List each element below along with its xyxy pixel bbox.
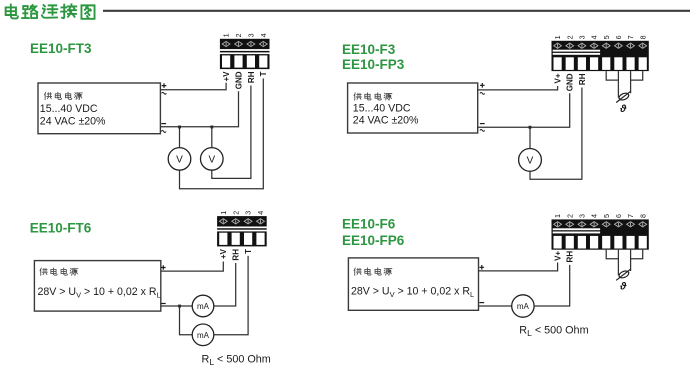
svg-text:V: V: [176, 155, 183, 166]
wire to mA meters: [161, 305, 192, 307]
svg-text:3: 3: [244, 211, 253, 215]
probe leads pins 5-8: [606, 71, 643, 80]
svg-text:GND: GND: [234, 71, 243, 89]
svg-text:28V > UV > 10 + 0,02 x RL: 28V > UV > 10 + 0,02 x RL: [38, 286, 161, 300]
svg-text:6: 6: [614, 35, 623, 39]
svg-text:T: T: [259, 71, 268, 76]
header rule: [103, 10, 690, 12]
svg-text:7: 7: [626, 214, 635, 218]
svg-text:+V: +V: [219, 248, 228, 259]
power supply box PS1: [38, 83, 160, 134]
wire V1 stem: [179, 127, 181, 148]
milliammeter mA2 (T loop): [192, 324, 214, 346]
polarity mark -: [161, 123, 166, 125]
power supply box PS3: [34, 261, 160, 312]
svg-text:3: 3: [246, 33, 255, 37]
svg-text:4: 4: [590, 214, 599, 218]
terminal block J2 (8-pole): [552, 41, 649, 71]
milliammeter mA1 (RH loop): [192, 295, 214, 317]
svg-text:RH: RH: [578, 73, 587, 85]
svg-text:EE10-FP3: EE10-FP3: [342, 57, 405, 72]
temperature sensor body: [616, 91, 630, 102]
svg-text:1: 1: [219, 211, 228, 215]
wire +V supply: [160, 83, 226, 90]
polarity mark +: [162, 83, 167, 88]
svg-text:RH: RH: [247, 71, 256, 83]
label 供电电源 (supply): [354, 268, 392, 275]
svg-text:EE10-F3: EE10-F3: [342, 42, 396, 57]
svg-text:1: 1: [553, 35, 562, 39]
power supply box PS2: [348, 83, 478, 133]
svg-text:1: 1: [553, 214, 562, 218]
wire +V supply: [161, 262, 224, 272]
junction dot C: [529, 126, 532, 129]
svg-text:mA: mA: [517, 302, 530, 311]
svg-text:24 VAC ±20%: 24 VAC ±20%: [353, 115, 419, 127]
svg-text:4: 4: [590, 35, 599, 39]
polarity mark ~: [161, 131, 166, 133]
svg-text:28V > UV > 10 + 0,02 x RL: 28V > UV > 10 + 0,02 x RL: [351, 286, 474, 300]
svg-text:EE10-F6: EE10-F6: [342, 217, 396, 232]
wire GND return: [160, 91, 238, 127]
voltmeter V2 (T output): [201, 148, 224, 171]
svg-text:2: 2: [231, 211, 240, 215]
junction dot A: [178, 126, 181, 129]
power supply box PS4: [348, 258, 478, 310]
svg-text:V+: V+: [553, 251, 562, 261]
svg-text:1: 1: [222, 33, 231, 37]
temperature sensor body: [616, 269, 630, 280]
wire branch to mA2: [180, 306, 193, 335]
wire V1 to T pin: [180, 79, 264, 189]
wire mA3 to RH pin: [534, 265, 570, 306]
polarity mark +: [480, 265, 485, 270]
junction dot D: [178, 305, 181, 308]
probe leads down: [618, 259, 630, 276]
polarity mark -: [480, 123, 485, 125]
probe leads pins 5-8: [606, 250, 643, 259]
svg-text:2: 2: [565, 214, 574, 218]
svg-text:EE10-FP6: EE10-FP6: [342, 233, 405, 248]
label 供电电源 (supply): [40, 268, 78, 275]
svg-text:V: V: [208, 155, 215, 166]
svg-text:2: 2: [565, 35, 574, 39]
polarity mark +: [161, 265, 166, 270]
svg-text:RL < 500 Ohm: RL < 500 Ohm: [519, 324, 588, 338]
svg-text:15...40 VDC: 15...40 VDC: [40, 103, 98, 115]
svg-text:8: 8: [638, 35, 647, 39]
terminal block J3 (4-pole): [217, 216, 267, 246]
svg-text:RH: RH: [566, 251, 575, 263]
svg-text:2: 2: [234, 33, 243, 37]
svg-text:24 VAC ±20%: 24 VAC ±20%: [40, 116, 106, 128]
svg-text:5: 5: [602, 35, 611, 39]
svg-text:ϑ: ϑ: [619, 281, 627, 293]
polarity mark ~: [480, 92, 485, 94]
terminal block J1 (4-pole): [220, 39, 270, 69]
header title 电路连接图 (circuit connection diagram): [6, 4, 95, 18]
label 供电电源 (supply): [354, 93, 392, 100]
wire V3 stem: [529, 127, 531, 148]
polarity mark -: [479, 302, 484, 304]
svg-text:RL < 500 Ohm: RL < 500 Ohm: [202, 353, 271, 367]
svg-text:mA: mA: [197, 302, 210, 311]
wire V+ supply: [479, 263, 558, 271]
svg-text:3: 3: [578, 214, 587, 218]
wire V3 to RH pin: [530, 88, 582, 180]
svg-text:T: T: [244, 249, 253, 254]
milliammeter mA3: [512, 295, 534, 317]
svg-text:GND: GND: [566, 73, 575, 91]
svg-text:4: 4: [256, 211, 265, 215]
wire to mA meter: [479, 305, 512, 307]
svg-text:EE10-FT6: EE10-FT6: [30, 220, 92, 235]
wire V2 to RH pin: [212, 86, 251, 179]
voltmeter V1 (RH output): [168, 148, 191, 171]
polarity mark -: [161, 303, 166, 305]
svg-text:4: 4: [259, 33, 268, 37]
svg-text:15...40 VDC: 15...40 VDC: [353, 102, 411, 114]
svg-text:5: 5: [602, 214, 611, 218]
polarity mark ~: [162, 92, 167, 94]
junction dot B: [210, 126, 213, 129]
wire mA1 to RH pin: [214, 263, 236, 306]
svg-text:ϑ: ϑ: [619, 103, 627, 115]
wire V2 stem: [211, 127, 213, 148]
svg-text:3: 3: [578, 35, 587, 39]
label 供电电源 (supply): [44, 92, 82, 99]
svg-text:RH: RH: [232, 249, 241, 261]
wire GND return: [478, 93, 570, 127]
svg-text:mA: mA: [197, 331, 210, 340]
polarity mark +: [480, 83, 485, 88]
voltmeter V3: [519, 149, 542, 172]
wire mA2 to T pin: [214, 256, 248, 335]
svg-text:7: 7: [626, 35, 635, 39]
svg-text:8: 8: [638, 214, 647, 218]
terminal block J4 (8-pole): [552, 219, 649, 249]
polarity mark ~: [480, 129, 485, 131]
svg-text:EE10-FT3: EE10-FT3: [30, 41, 92, 56]
svg-text:V: V: [527, 156, 534, 167]
svg-text:V+: V+: [553, 73, 562, 83]
probe leads down: [618, 80, 630, 97]
wire V+ supply: [478, 86, 558, 90]
svg-text:6: 6: [614, 214, 623, 218]
svg-text:+V: +V: [222, 71, 231, 82]
